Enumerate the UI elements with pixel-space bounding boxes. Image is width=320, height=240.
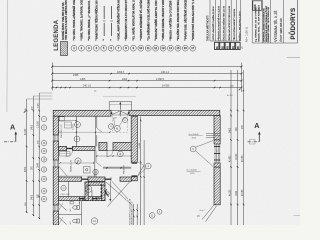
window W5 mullion marks xyxy=(214,146,220,148)
svg-text:OPRAVY ZHŠEBNÍKŮ VČ. NÁTĚRŮ 2x: OPRAVY ZHŠEBNÍKŮ VČ. NÁTĚRŮ 2x xyxy=(140,0,143,39)
stray tick upper left xyxy=(24,111,25,112)
circle 11 xyxy=(61,185,66,190)
window W5 large in right wall of gym xyxy=(214,139,220,141)
svg-text:OBKL TRACHEC. 2x PROFIL OCEL L: OBKL TRACHEC. 2x PROFIL OCEL L xyxy=(81,0,84,39)
vestibule dashed lines xyxy=(112,116,114,132)
circled label 6 top xyxy=(123,118,128,123)
circle 14 xyxy=(91,218,97,224)
short border line right xyxy=(287,57,300,59)
svg-text:PARKETOVÁ PODLAHA DUB TL 22 MM: PARKETOVÁ PODLAHA DUB TL 22 MM xyxy=(192,0,195,39)
svg-text:LEGENDA: LEGENDA xyxy=(54,19,60,51)
outer wall top-right segment xyxy=(129,110,220,115)
mid dimension long line 2 xyxy=(143,140,145,225)
svg-text:ÚKLID: ÚKLID xyxy=(98,141,101,147)
right dimension vertical line 2 xyxy=(237,70,239,225)
entry room inner dim line xyxy=(59,120,76,122)
svg-text:1640: 1640 xyxy=(38,162,40,168)
outer wall left segment 2 xyxy=(53,141,58,160)
svg-text:4050: 4050 xyxy=(25,166,27,172)
interior wall south of hall east part xyxy=(120,177,131,181)
circle D xyxy=(149,213,155,219)
store room wall left xyxy=(85,182,88,201)
legend circle 14 xyxy=(168,45,174,51)
interior hall north wall east xyxy=(113,142,131,150)
svg-text:1405: 1405 xyxy=(80,78,86,81)
interior wall gym west xyxy=(131,116,137,162)
legend circle 10 xyxy=(138,45,144,51)
svg-text:4x180: 4x180 xyxy=(25,128,27,135)
svg-text:16140: 16140 xyxy=(236,153,238,160)
door D2 jambs xyxy=(81,177,83,181)
svg-text:HRADEC KRÁL. TŘ. SNP KRESLIL: HRADEC KRÁL. TŘ. SNP KRESLIL xyxy=(258,6,261,42)
svg-text:ODPAD 1500: ODPAD 1500 xyxy=(86,184,89,195)
table column line 7 xyxy=(240,0,242,41)
svg-text:2404: 2404 xyxy=(122,79,128,81)
svg-text:ŘEMOZOVKY FIX A PO OBOU STR.: ŘEMOZOVKY FIX A PO OBOU STR. xyxy=(125,0,128,39)
title block left border xyxy=(251,0,253,43)
svg-text:PARAPET SKŘIŇ. LINKY DL 1500 M: PARAPET SKŘIŇ. LINKY DL 1500 MM xyxy=(155,0,158,39)
outer wall top-left segment xyxy=(53,110,111,116)
svg-text:OBKLAD KERAM. 150x150 V 2000 M: OBKLAD KERAM. 150x150 V 2000 MM xyxy=(162,0,165,39)
table number box 04 xyxy=(230,42,234,49)
scanned page left edge line xyxy=(6,0,9,112)
toilet 1 xyxy=(77,206,79,210)
shower box with drain xyxy=(84,167,91,174)
entrance porch outline xyxy=(109,102,131,111)
outer wall left segment 4 xyxy=(53,211,58,225)
svg-text:10: 10 xyxy=(139,46,142,50)
svg-text:4x180: 4x180 xyxy=(229,189,231,196)
legend circle 13 xyxy=(160,45,166,51)
legend circle 16 xyxy=(182,45,188,51)
svg-text:13: 13 xyxy=(162,46,165,50)
door D3 jambs xyxy=(104,177,106,181)
top dimension bend marks right xyxy=(239,89,240,90)
svg-text:⊕ 2-3: ⊕ 2-3 xyxy=(227,94,233,97)
interior wall pier xyxy=(99,142,107,150)
wc partition line 1 xyxy=(67,181,69,196)
outer wall right lower segment xyxy=(214,167,220,205)
svg-text:PRAHY DUB. OŠETŘENÉ VOSKEM 2x: PRAHY DUB. OŠETŘENÉ VOSKEM 2x xyxy=(184,0,187,39)
svg-text:12: 12 xyxy=(154,46,157,50)
stair diagonal leader 3 xyxy=(112,182,128,200)
svg-text:SKLAD: SKLAD xyxy=(91,190,94,197)
table number box 03 xyxy=(225,42,229,49)
window W1 in left wall xyxy=(52,135,54,141)
top dimension left end vertical xyxy=(51,63,53,91)
coat rack rect entry xyxy=(65,122,72,128)
interior wall south of hall mid part xyxy=(88,177,105,181)
shatna partition vertical xyxy=(94,151,96,177)
left dimension top caps xyxy=(27,98,53,100)
svg-text:4x180: 4x180 xyxy=(139,142,141,149)
circled label 19 predsin xyxy=(93,169,98,174)
legend circle 15 xyxy=(175,45,181,51)
svg-text:1x: 1x xyxy=(217,150,219,152)
svg-text:2x OBKL PROFIL „L“ 40x40x4 DL: 2x OBKL PROFIL „L“ 40x40x4 DL 300 xyxy=(88,0,91,39)
svg-text:240 2,4: 240 2,4 xyxy=(161,71,170,74)
svg-text:NÁŘADÍ + SKLAD PVC 7,25 M: NÁŘADÍ + SKLAD PVC 7,25 M xyxy=(239,11,242,40)
outer wall right upper segment xyxy=(214,116,220,141)
outer wall left segment 3 xyxy=(53,167,58,205)
gym door opening in west wall xyxy=(131,161,137,163)
table column line 2 xyxy=(214,0,216,41)
mid dimension long line 1 xyxy=(140,117,142,226)
entry partition 2 with door xyxy=(95,116,97,146)
right dimension vertical line 1 xyxy=(230,70,232,225)
svg-text:41480: 41480 xyxy=(229,155,231,162)
svg-text:1,5x50: 1,5x50 xyxy=(38,120,40,128)
title block dark stamp patch xyxy=(253,1,262,11)
room table TABULKA MISTNOSTI (rotated) xyxy=(207,0,242,50)
entry shoe rack xyxy=(59,117,64,121)
left dimension vertical line 1 xyxy=(26,99,28,213)
entry vestibule tiny marks xyxy=(114,117,117,119)
svg-text:M = 1:50 &: M = 1:50 & xyxy=(245,26,249,42)
top dimension end ticks xyxy=(51,66,53,68)
store room wall top xyxy=(85,182,105,185)
svg-text:PŮDORYS: PŮDORYS xyxy=(289,8,297,40)
top dimension intermediate ticks line3 xyxy=(109,80,111,82)
window W5 jamb block top xyxy=(214,140,220,144)
interior hall north wall mid xyxy=(73,146,96,150)
interior hall north wall west stub xyxy=(59,146,67,150)
svg-text:ÚKLID+SKLAD NÁŘADÍ TER 4,15 M: ÚKLID+SKLAD NÁŘADÍ TER 4,15 M xyxy=(223,6,226,40)
svg-text:ŠATNA+WC+SPRCHY KER 16,40 M: ŠATNA+WC+SPRCHY KER 16,40 M xyxy=(228,6,231,40)
mid dimension short line 1 xyxy=(133,204,135,225)
left circle 18 xyxy=(41,157,46,162)
svg-text:2x ZHŠEBNÍKY OCELOVÉ POZINK.: 2x ZHŠEBNÍKY OCELOVÉ POZINK. xyxy=(147,0,150,39)
table column line 4 xyxy=(225,0,227,41)
left dimension vertical line 3 xyxy=(38,93,40,219)
svg-text:TABULKA MÍSTNOSTÍ: TABULKA MÍSTNOSTÍ xyxy=(207,15,210,41)
porch arrow xyxy=(119,103,121,110)
toilet 2 xyxy=(77,219,79,223)
legend circle 2 xyxy=(79,45,85,51)
svg-text:2400: 2400 xyxy=(32,124,34,130)
door D4 jambs xyxy=(79,197,81,201)
svg-text:40788: 40788 xyxy=(242,155,244,162)
svg-text:ZÁDVEŘÍ 1500: ZÁDVEŘÍ 1500 xyxy=(60,123,63,138)
window W5 jamb block bottom xyxy=(214,163,220,167)
svg-text:PŘEDSÍŇ+SCHODIŠTĚ PVC 8,25 M: PŘEDSÍŇ+SCHODIŠTĚ PVC 8,25 M xyxy=(217,6,220,41)
svg-text:OBKLAD KERAM 1500 2x: OBKLAD KERAM 1500 2x xyxy=(131,202,134,225)
wc door swing 1 xyxy=(59,203,67,211)
legend circle 1 xyxy=(71,45,77,51)
shatna room outline lines xyxy=(59,175,95,177)
door D5 jambs xyxy=(92,197,94,201)
svg-text:TĚLOCVIČNA PARKETY 98,60 M: TĚLOCVIČNA PARKETY 98,60 M xyxy=(233,9,236,41)
hall circled label B xyxy=(117,151,123,157)
right dimension ticks xyxy=(230,110,232,112)
legend circle 9 xyxy=(130,45,136,51)
svg-text:Ing. FERENC ANT. HK 25 VYPRAC.: Ing. FERENC ANT. HK 25 VYPRAC. xyxy=(255,6,258,42)
wc cubicle partition line xyxy=(59,214,82,216)
left circle 13 xyxy=(41,167,46,172)
shatna inner dim line xyxy=(60,162,94,164)
stair diagonal leader 1 xyxy=(106,182,132,205)
legend circle 12 xyxy=(153,45,159,51)
faint canopy line above porch xyxy=(103,95,136,97)
table number box 05 xyxy=(236,42,240,49)
svg-text:15: 15 xyxy=(176,46,179,50)
legend circle 4 xyxy=(93,45,99,51)
entrance double door leaves xyxy=(112,111,120,114)
legend circle 3 xyxy=(86,45,92,51)
shatna chamfer corner xyxy=(59,166,67,176)
left circle 20 xyxy=(41,176,46,181)
svg-text:A: A xyxy=(254,121,259,130)
svg-text:&: & xyxy=(241,46,243,50)
svg-text:2400: 2400 xyxy=(32,194,34,200)
svg-text:1640: 1640 xyxy=(236,190,238,196)
svg-text:1,5x50: 1,5x50 xyxy=(73,124,75,130)
svg-text:40785: 40785 xyxy=(242,189,244,196)
interior dim line entry xyxy=(59,131,110,133)
svg-text:11: 11 xyxy=(147,46,150,50)
svg-text:DLAŽBA TER. 300x300 PROTISKLUZ: DLAŽBA TER. 300x300 PROTISKLUZ xyxy=(177,0,180,39)
left circle 12 xyxy=(41,188,46,193)
stair diagonal leader 2 xyxy=(108,182,130,207)
svg-text:PŘEDSÍŇ: PŘEDSÍŇ xyxy=(123,165,126,174)
interior wall wc block north xyxy=(59,197,105,201)
legend circle 17 xyxy=(190,45,196,51)
window W3 in left wall xyxy=(52,205,54,211)
left circle 15 xyxy=(41,140,46,145)
table column line 3 xyxy=(220,0,222,41)
title block right border xyxy=(297,0,299,43)
table number box 01 xyxy=(215,42,219,49)
svg-text:M: M xyxy=(76,123,78,126)
mid dimension short line 2 xyxy=(136,204,138,225)
legend circle 7 xyxy=(116,45,122,51)
svg-text:G+a 2: G+a 2 xyxy=(200,210,205,212)
svg-text:24 555: 24 555 xyxy=(162,84,170,87)
top dimension intermediate ticks line4 xyxy=(56,87,58,89)
top dimension right end vertical xyxy=(241,63,243,93)
left dimension ticks xyxy=(38,110,40,112)
wc door swing 2 xyxy=(59,217,67,225)
legend circle 11 xyxy=(145,45,151,51)
legend entry text column 5 xyxy=(103,6,105,19)
title block column line c xyxy=(283,0,285,43)
left circle 16 xyxy=(41,148,46,153)
svg-text:1405: 1405 xyxy=(38,102,40,108)
circle 10 xyxy=(85,186,92,193)
store room wall right xyxy=(102,185,105,200)
hall inner dim ticks xyxy=(97,155,131,157)
table column line 1 xyxy=(209,0,211,41)
table column line 5 xyxy=(230,0,232,41)
table number box 02 xyxy=(220,42,224,49)
shatna circled 15 xyxy=(75,158,81,164)
svg-text:D: D xyxy=(151,214,153,217)
svg-text:240 1,6: 240 1,6 xyxy=(83,84,92,87)
gym south door diagonal 2 xyxy=(206,206,217,222)
svg-text:VÝSTAVBA TĚL 3. ZŠ: VÝSTAVBA TĚL 3. ZŠ xyxy=(273,11,278,42)
svg-text:KL JADŘL VENTILÁTOR AXIAL 100: KL JADŘL VENTILÁTOR AXIAL 100 xyxy=(133,0,136,39)
left dimension vertical line 2 xyxy=(32,96,34,216)
window W2 in left wall xyxy=(52,160,54,167)
left circle 7 xyxy=(41,116,46,121)
svg-text:VSTUP+ZÁDVEŘÍ DLAŽBA 12,50 M: VSTUP+ZÁDVEŘÍ DLAŽBA 12,50 M xyxy=(212,6,215,40)
table column line 6 xyxy=(236,0,238,41)
top dimension intermediate ticks line2 xyxy=(110,73,112,75)
top dimension line 4 xyxy=(52,87,241,89)
circled label 4 entry right xyxy=(108,124,113,129)
svg-text:14: 14 xyxy=(169,46,172,50)
left circle 21 xyxy=(41,196,46,201)
entrance door center marks xyxy=(119,111,121,117)
svg-text:OBRANIČ ZDRAV. TECH 358/14 HK: OBRANIČ ZDRAV. TECH 358/14 HK xyxy=(267,6,270,42)
circled label entry 2 xyxy=(74,136,80,142)
hall door D1b jambs and swing xyxy=(107,150,113,152)
gym circled label 3 with leader xyxy=(145,163,151,169)
svg-text:RABITKESKI TĚŽKÁ PŘÍČKA 100 MM: RABITKESKI TĚŽKÁ PŘÍČKA 100 MM xyxy=(95,0,98,39)
legend circle 8 xyxy=(123,45,129,51)
bottom right small dash xyxy=(294,215,301,217)
svg-text:OBKL 1500: OBKL 1500 xyxy=(61,194,70,196)
svg-text:4050,5: 4050,5 xyxy=(117,72,125,74)
circle E xyxy=(157,209,162,214)
radiator niche lines below top-right corner xyxy=(206,133,220,135)
stair entry dark fixture xyxy=(105,190,109,197)
svg-text:2455: 2455 xyxy=(73,74,79,77)
svg-text:U: U xyxy=(192,148,194,151)
svg-text:VPN MALTU A NOVÁ OMÍTKA VPC: VPN MALTU A NOVÁ OMÍTKA VPC xyxy=(65,0,68,40)
mid dimension ticks xyxy=(133,209,134,210)
right dimension vertical line 3 xyxy=(243,70,245,225)
legend entry text column 6 xyxy=(111,6,113,19)
svg-text:MALBA + NÁTĚRY 2x OTLUČENÍ OM.: MALBA + NÁTĚRY 2x OTLUČENÍ OM. xyxy=(170,0,173,39)
interior wall stub below gym door xyxy=(131,177,137,181)
small box right of dims xyxy=(250,140,256,145)
entry partition 1 xyxy=(75,116,77,146)
wc sink xyxy=(70,202,73,204)
hall door D1 jambs and swing xyxy=(66,146,68,150)
top dimension line 3 xyxy=(52,80,241,82)
door threshold dark marks xyxy=(67,148,73,150)
legend circle 6 xyxy=(108,45,114,51)
title block bottom border xyxy=(253,42,298,44)
gym window circled label U with leaders xyxy=(190,146,196,152)
title block column line b xyxy=(270,0,272,43)
shatna bench rects xyxy=(60,152,71,157)
table bottom border xyxy=(210,40,241,42)
legend circle 5 xyxy=(101,45,107,51)
svg-text:16: 16 xyxy=(184,46,187,50)
svg-text:2x OBKL TROFIL+ZÁRUBEŇ OCEL 80: 2x OBKL TROFIL+ZÁRUBEŇ OCEL 80 xyxy=(73,0,76,39)
circled label M entry vestibule xyxy=(114,126,120,132)
svg-text:4 050,5: 4 050,5 xyxy=(156,78,165,81)
svg-text:A: A xyxy=(10,123,15,132)
store room dark edge marks xyxy=(100,184,102,199)
svg-text:17: 17 xyxy=(191,46,194,50)
gym south door diagonal 1 xyxy=(202,205,214,220)
predsin partition thin wall xyxy=(103,166,131,168)
svg-text:SOKL ANYP DŘEVĚNÝ VÝŠKA 80 MM: SOKL ANYP DŘEVĚNÝ VÝŠKA 80 MM xyxy=(118,0,121,39)
legend hatch chip symbol xyxy=(61,42,68,56)
top dimension line 2 xyxy=(52,73,241,75)
entrance door opening jambs xyxy=(110,110,112,116)
circled label entry 1 xyxy=(75,122,81,128)
left circle 8 xyxy=(41,125,46,130)
title block column line a xyxy=(262,0,264,43)
top dimension line 1 xyxy=(52,66,241,68)
wc cubicle right line xyxy=(81,201,83,225)
stair vertical dim with arrow xyxy=(109,181,111,200)
interior wall south of hall west part xyxy=(59,177,82,181)
svg-text:M: M xyxy=(116,127,118,130)
svg-text:2400: 2400 xyxy=(229,127,231,133)
svg-text:ŠATNA 16,40: ŠATNA 16,40 xyxy=(70,159,73,172)
outer wall left segment 1 xyxy=(53,116,58,135)
